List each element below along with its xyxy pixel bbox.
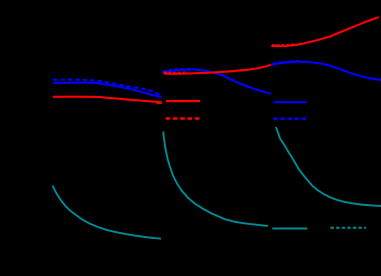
panel 1 blue dashed curve [53, 80, 162, 96]
panel 3 red solid curve [271, 17, 378, 46]
panel 3 teal curve [276, 127, 381, 206]
panel 2 legend red dashed segment [166, 117, 201, 119]
panel 1 blue solid curve [53, 83, 162, 97]
panel 3 legend blue solid segment [274, 101, 307, 103]
panel 3 red dotted overlay at start [272, 43, 294, 46]
panel 2 red dotted overlay at start [164, 71, 189, 73]
panel 2 legend red solid segment [166, 100, 200, 102]
panel 1 red dashed end overlay [157, 102, 162, 104]
panel 3 legend teal dashed segment [331, 227, 367, 229]
panel 1 red solid curve [53, 97, 162, 103]
panel 3 legend teal solid segment [272, 228, 307, 230]
panel 1 teal curve [53, 186, 162, 239]
panel 3 blue solid curve [271, 62, 381, 80]
panel 2 blue solid curve [163, 70, 272, 94]
panel 2 red solid curve [164, 65, 272, 74]
panel 3 blue dashed overlay at start [272, 61, 302, 64]
panel 2 teal curve [163, 132, 268, 226]
panel 2 blue dashed overlay at start [163, 69, 208, 71]
panel 3 legend blue dashed segment [273, 117, 307, 119]
